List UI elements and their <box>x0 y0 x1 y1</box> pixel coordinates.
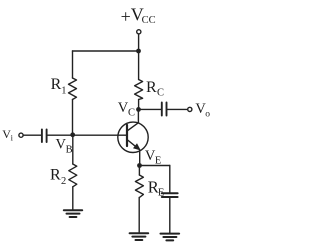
wire bypass branch vertical to capacitor <box>169 166 171 193</box>
transistor Q1 circle <box>118 122 148 152</box>
ground below RE <box>130 233 149 240</box>
ground below R2 <box>64 210 82 217</box>
transistor base bar <box>126 125 128 146</box>
output terminal circle Vo <box>188 107 192 111</box>
svg-text:R: R <box>50 166 61 183</box>
node VE junction dot <box>137 163 142 168</box>
wire collector vertical to VC node <box>137 109 139 122</box>
resistor RE <box>135 175 143 198</box>
svg-text:2: 2 <box>61 176 66 187</box>
wire input capacitor to transistor base <box>48 134 127 136</box>
resistor RC <box>135 80 143 100</box>
capacitor output coupling <box>162 103 167 116</box>
svg-text:C: C <box>157 87 164 98</box>
wire R2 bottom to ground <box>72 187 74 210</box>
wire R1 bottom to base node <box>72 100 74 135</box>
node top junction dot <box>136 49 141 54</box>
svg-text:o: o <box>205 109 210 119</box>
wire bypass capacitor to ground <box>169 198 171 234</box>
svg-text:E: E <box>158 187 164 198</box>
svg-text:E: E <box>155 155 161 166</box>
svg-text:R: R <box>51 76 62 93</box>
wire VC to output capacitor <box>139 108 162 110</box>
svg-text:R: R <box>146 79 157 96</box>
transistor collector diagonal <box>127 123 138 131</box>
node VC junction dot <box>136 107 141 112</box>
capacitor input coupling <box>42 129 47 142</box>
wire VB to R2 top <box>72 135 74 164</box>
svg-text:B: B <box>66 145 73 156</box>
wire output capacitor to Vo terminal <box>167 108 187 110</box>
resistor R2 <box>69 164 77 187</box>
svg-text:+: + <box>121 7 131 27</box>
svg-text:1: 1 <box>61 85 66 96</box>
wire RC bottom to VC node <box>138 100 140 110</box>
capacitor CE bypass <box>162 193 178 197</box>
wire top junction to RC <box>138 51 140 80</box>
wire top horizontal from R1 branch to Vcc branch <box>73 50 139 52</box>
node VB junction dot <box>70 132 75 137</box>
resistor R1 <box>69 78 77 100</box>
wire VE to bypass branch horizontal <box>140 165 170 167</box>
transistor emitter diagonal with arrow <box>127 140 139 149</box>
wire emitter vertical to VE node <box>139 150 141 166</box>
svg-text:C: C <box>128 108 135 119</box>
wire VE to RE top <box>138 166 140 176</box>
power +Vcc terminal circle <box>137 30 141 34</box>
ground below bypass capacitor <box>161 234 180 241</box>
wire R1 top vertical <box>72 51 74 78</box>
wire RE bottom to ground <box>138 198 140 234</box>
svg-text:CC: CC <box>142 15 156 26</box>
wire Vcc terminal to top junction <box>138 34 140 51</box>
wire Vi terminal to input capacitor <box>23 134 41 136</box>
input terminal circle Vi <box>19 133 23 137</box>
